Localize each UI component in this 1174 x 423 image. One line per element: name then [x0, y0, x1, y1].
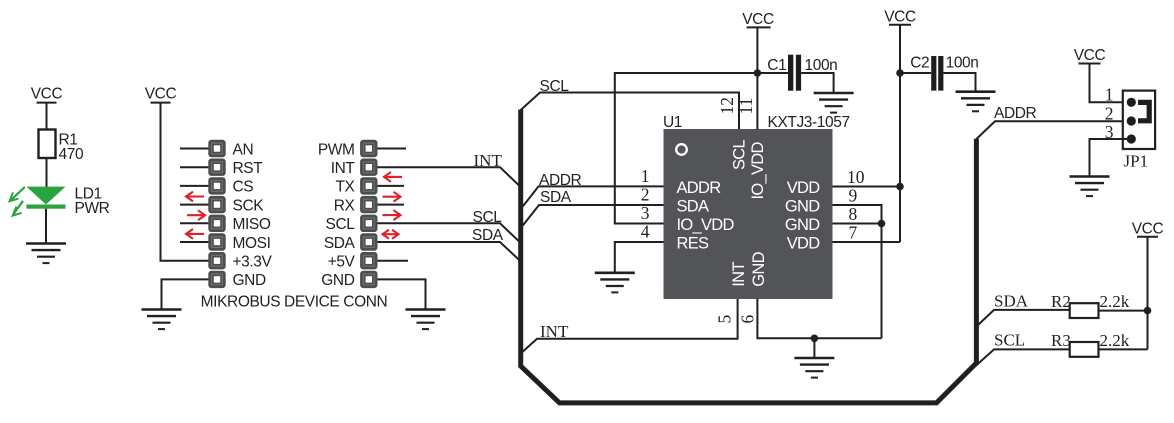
wire MISO pin: [180, 222, 209, 224]
svg-text:MISO: MISO: [233, 216, 271, 233]
svg-text:GND: GND: [750, 251, 768, 286]
svg-text:IO_VDD: IO_VDD: [677, 216, 735, 234]
power flag VCC (C2): [884, 8, 916, 25]
node junction at C1: [754, 69, 762, 77]
arrow RX (right): [383, 210, 401, 220]
arrow SCL (both): [383, 230, 399, 239]
arrow SCK (left): [186, 192, 204, 202]
svg-text:VCC: VCC: [884, 8, 916, 25]
header P2 right column pins: [360, 140, 377, 288]
wire GND to ground: [378, 279, 426, 308]
svg-text:SCL: SCL: [540, 78, 570, 95]
svg-text:3: 3: [641, 203, 650, 223]
wire MOSI pin: [180, 241, 209, 243]
wire VCC down to U1 pins 10/7: [899, 26, 901, 243]
wire VCC to R1: [46, 104, 48, 130]
svg-text:2.2k: 2.2k: [1100, 331, 1130, 350]
svg-text:IO_VDD: IO_VDD: [749, 141, 767, 199]
arrow INT (left): [384, 172, 402, 182]
wire R2 to VCC rail: [1099, 310, 1148, 312]
svg-text:INT: INT: [730, 262, 748, 287]
node junction pin 8: [878, 220, 886, 228]
svg-text:KXTJ3-1057: KXTJ3-1057: [768, 114, 850, 131]
svg-text:TX: TX: [335, 179, 355, 196]
svg-text:6: 6: [738, 315, 758, 324]
svg-text:ADDR: ADDR: [994, 105, 1037, 122]
svg-text:SCL: SCL: [473, 209, 503, 226]
ground (RES): [595, 273, 635, 293]
svg-text:9: 9: [849, 186, 858, 206]
svg-text:ADDR: ADDR: [539, 172, 582, 189]
svg-text:PWM: PWM: [318, 141, 355, 158]
wire U1 pin 3 IO_VDD to VCC rail: [615, 73, 788, 224]
bus (thick net): [521, 110, 977, 403]
wire PWM stub: [378, 148, 407, 150]
wire U1 pin 4 RES to ground: [615, 242, 664, 272]
node junction at C2: [896, 69, 904, 77]
wire TX stub: [378, 185, 405, 187]
wire +5V stub: [378, 260, 409, 262]
wire INT from bus to U1 pin 5: [521, 299, 738, 354]
wire SCL from bus to R3: [976, 349, 1069, 365]
wire U1 pin 8 GND: [833, 223, 882, 225]
svg-text:4: 4: [641, 222, 650, 242]
ground (LED): [26, 244, 66, 264]
svg-text:GND: GND: [233, 272, 266, 289]
svg-text:2: 2: [1105, 103, 1114, 123]
wire C2 to ground: [943, 73, 975, 91]
svg-text:2.2k: 2.2k: [1100, 292, 1130, 311]
arrow TX (right): [383, 192, 401, 202]
svg-text:+5V: +5V: [328, 254, 356, 271]
pin labels right column: [318, 141, 356, 289]
ground (JP1): [1070, 177, 1110, 197]
jumper JP1: [1123, 91, 1155, 171]
svg-text:INT: INT: [474, 151, 503, 170]
wire VCC to JP1 pin 1: [1090, 65, 1132, 103]
svg-text:R2: R2: [1051, 292, 1071, 311]
wire VCC to +3.3V pin: [161, 104, 209, 261]
svg-text:10: 10: [847, 167, 865, 187]
header P1 left column pins: [208, 140, 225, 288]
power flag VCC (LED branch): [31, 86, 63, 103]
svg-text:SCL: SCL: [326, 216, 356, 233]
resistor R1 470: [39, 130, 84, 163]
ground (U1 GND): [794, 358, 834, 378]
svg-text:PWR: PWR: [75, 200, 110, 217]
power flag VCC (mikrobus 3.3V): [145, 86, 177, 103]
svg-text:VDD: VDD: [787, 179, 821, 197]
svg-text:SDA: SDA: [994, 291, 1029, 310]
svg-text:GND: GND: [785, 216, 820, 234]
svg-text:GND: GND: [321, 272, 354, 289]
capacitor C1 100n: [767, 55, 837, 91]
svg-text:VCC: VCC: [145, 86, 177, 103]
svg-text:2: 2: [641, 185, 650, 205]
svg-text:SCL: SCL: [731, 139, 749, 170]
wire LED to ground: [45, 209, 47, 243]
wire U1 pin 9 GND: [833, 205, 882, 338]
svg-text:AN: AN: [233, 141, 254, 158]
svg-text:INT: INT: [331, 160, 356, 177]
svg-text:470: 470: [59, 146, 84, 163]
svg-text:100n: 100n: [946, 55, 979, 72]
svg-text:SCK: SCK: [233, 197, 265, 214]
capacitor C2 100n: [900, 55, 978, 91]
wire JP1 pin 3 to ground: [1090, 139, 1132, 176]
svg-text:VCC: VCC: [31, 86, 63, 103]
wire GND pin to ground: [162, 279, 209, 308]
svg-text:JP1: JP1: [1124, 152, 1149, 171]
power flag VCC (C1): [742, 11, 774, 28]
wire VCC down to U1 pin 11: [756, 28, 758, 130]
node junction R2/VCC: [1144, 307, 1152, 315]
svg-text:GND: GND: [785, 198, 820, 216]
svg-text:RST: RST: [233, 160, 264, 177]
wire ADDR from bus to JP1 pin 2: [976, 121, 1131, 139]
svg-text:ADDR: ADDR: [677, 179, 722, 197]
svg-text:RX: RX: [334, 197, 356, 214]
svg-text:RES: RES: [677, 235, 710, 253]
svg-text:R3: R3: [1051, 331, 1071, 350]
ground (C1): [814, 93, 854, 113]
svg-text:INT: INT: [540, 322, 569, 341]
svg-text:VCC: VCC: [1074, 47, 1106, 64]
wire SCL from bus top: [521, 93, 739, 130]
svg-text:SDA: SDA: [677, 198, 710, 216]
wire RX stub: [378, 204, 405, 206]
svg-text:11: 11: [736, 98, 756, 115]
wire R1 to LED: [46, 158, 48, 187]
power flag VCC (pull-ups): [1132, 220, 1164, 237]
svg-text:VCC: VCC: [1132, 220, 1164, 237]
svg-text:SDA: SDA: [540, 189, 572, 206]
svg-text:12: 12: [717, 97, 737, 115]
power flag VCC (JP1): [1074, 47, 1106, 64]
node junction pin 10: [896, 183, 904, 191]
svg-text:+3.3V: +3.3V: [233, 254, 273, 271]
svg-text:1: 1: [641, 166, 650, 186]
svg-text:1: 1: [1105, 85, 1114, 105]
svg-text:SDA: SDA: [472, 227, 504, 244]
svg-text:VDD: VDD: [787, 235, 821, 253]
svg-text:SDA: SDA: [324, 235, 356, 252]
resistor R2 2.2k: [1051, 292, 1130, 318]
wire C1 to ground: [801, 73, 834, 92]
wire SCK pin: [180, 204, 209, 206]
node junction GND net: [811, 335, 819, 343]
svg-text:7: 7: [849, 223, 858, 243]
wire stub to ground: [813, 338, 815, 357]
svg-text:100n: 100n: [805, 57, 838, 74]
wire VCC down to R3: [1147, 238, 1149, 350]
svg-text:CS: CS: [233, 179, 254, 196]
arrow MISO (right): [187, 210, 205, 220]
svg-text:MOSI: MOSI: [233, 235, 271, 252]
wire U1 pin 7 VDD: [833, 241, 901, 243]
resistor R3 2.2k: [1051, 331, 1130, 357]
arrow MOSI (left): [186, 229, 204, 239]
svg-text:C2: C2: [910, 55, 929, 72]
svg-text:5: 5: [715, 315, 735, 324]
svg-text:8: 8: [849, 204, 858, 224]
svg-text:MIKROBUS DEVICE CONN: MIKROBUS DEVICE CONN: [201, 294, 388, 311]
pin labels left column: [233, 141, 273, 289]
wire SDA from bus to U1 pin 2: [523, 205, 664, 226]
wire SDA to bus: [378, 242, 521, 261]
svg-text:U1: U1: [663, 114, 682, 131]
ground (mikrobus left): [142, 310, 182, 330]
wire SDA from bus to R2: [976, 310, 1069, 327]
wire R3 to VCC rail: [1099, 348, 1148, 350]
wire U1 pin 6 GND net: [757, 299, 881, 339]
wire U1 pin 10 VDD: [833, 186, 901, 188]
wire CS pin: [180, 185, 209, 187]
ground (C2): [956, 92, 996, 112]
ground (mikrobus right): [406, 310, 446, 330]
wire SCL to bus: [378, 223, 521, 243]
svg-text:C1: C1: [767, 57, 786, 74]
wire AN pin: [180, 148, 209, 150]
IC U1 KXTJ3-1057 body: [663, 114, 850, 299]
svg-text:SCL: SCL: [994, 331, 1025, 350]
wire ADDR from bus to U1 pin 1: [523, 186, 664, 206]
wire INT to bus: [378, 167, 521, 187]
wire RST pin: [180, 166, 209, 168]
svg-text:VCC: VCC: [742, 11, 774, 28]
LED LD1 PWR: [10, 186, 110, 217]
